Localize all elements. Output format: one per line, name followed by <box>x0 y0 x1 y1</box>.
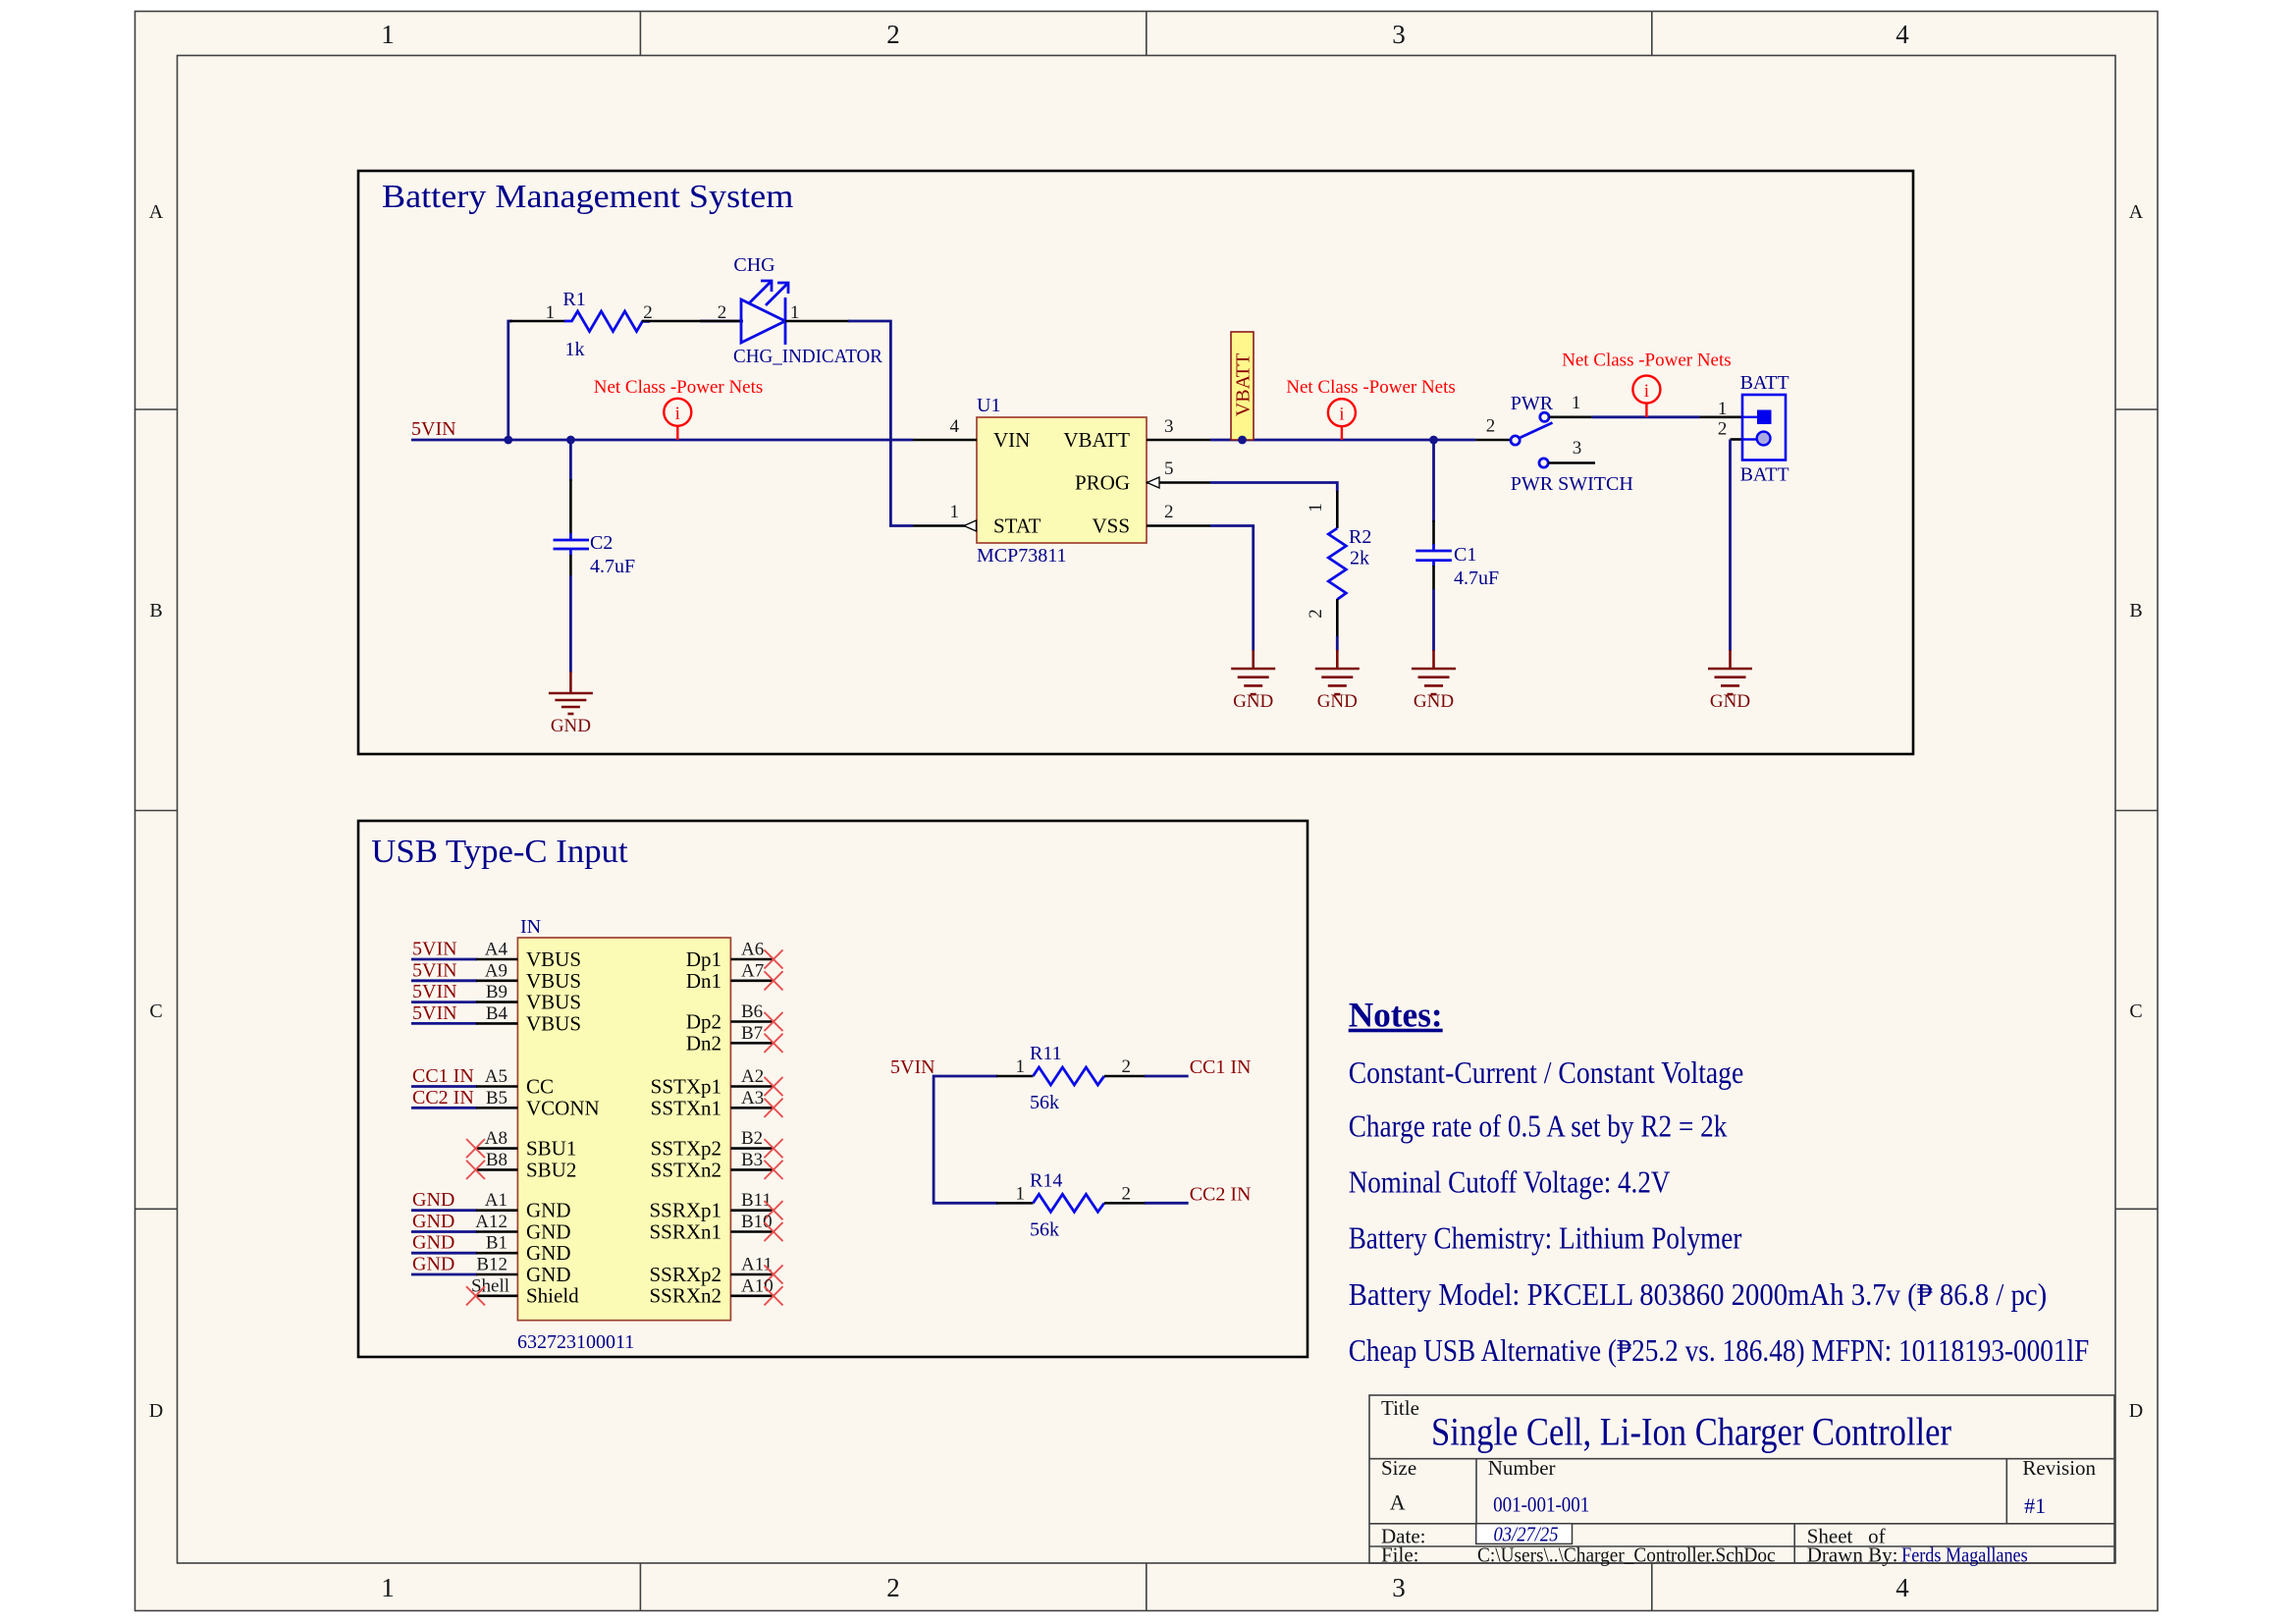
svg-text:GND: GND <box>412 1232 454 1254</box>
pin Shell no-connect X <box>466 1286 485 1305</box>
pin A6 X <box>765 949 783 968</box>
wire R11 to CC1 IN <box>1145 1075 1189 1078</box>
zone tick bottom 1|2 <box>639 1563 641 1611</box>
svg-text:R14: R14 <box>1030 1169 1062 1191</box>
pin B2 SSTXp2 <box>730 1147 774 1150</box>
svg-text:B10: B10 <box>741 1212 773 1232</box>
ground GND BATT <box>1708 650 1752 694</box>
wire 5VIN B4 <box>411 1022 477 1025</box>
svg-text:GND: GND <box>412 1211 454 1232</box>
capacitor C1 pin2 <box>1432 566 1435 590</box>
wire 5VIN to R11 R14 <box>934 1076 997 1203</box>
junction dot C1 <box>1429 436 1438 445</box>
wire 5VIN B9 <box>411 1001 477 1003</box>
TITLEBLOCK <box>1369 1395 2114 1567</box>
capacitor C1 plates <box>1415 544 1452 567</box>
pin B6 X <box>765 1012 783 1031</box>
pin A11 SSRXp2 <box>730 1273 774 1276</box>
wire GND B1 <box>411 1252 477 1255</box>
pin A10 SSRXn2 <box>730 1295 774 1298</box>
svg-text:5VIN: 5VIN <box>890 1056 935 1078</box>
svg-text:CC2 IN: CC2 IN <box>412 1087 474 1109</box>
svg-text:Battery Chemistry: Lithium Pol: Battery Chemistry: Lithium Polymer <box>1349 1220 1742 1256</box>
svg-text:001-001-001: 001-001-001 <box>1493 1491 1589 1516</box>
svg-text:Title: Title <box>1381 1396 1419 1420</box>
svg-text:Dn2: Dn2 <box>686 1031 721 1055</box>
U1 pin2 VSS line <box>1147 524 1210 527</box>
ground GND VSS <box>1231 650 1275 694</box>
svg-text:2: 2 <box>886 20 900 49</box>
zone tick right A|B <box>2115 408 2158 410</box>
pin A11 X <box>765 1265 783 1283</box>
svg-text:SSRXp1: SSRXp1 <box>649 1199 721 1222</box>
svg-text:SSTXp2: SSTXp2 <box>651 1137 721 1161</box>
pin B1 <box>476 1252 517 1255</box>
LED pin1 <box>785 320 850 323</box>
svg-text:CHG: CHG <box>733 254 774 276</box>
U1 pin5 PROG line <box>1147 481 1210 484</box>
svg-text:GND: GND <box>1317 691 1358 712</box>
svg-text:B4: B4 <box>486 1003 508 1024</box>
U1 pin1 arrow <box>964 520 977 531</box>
zone tick top 3|4 <box>1651 12 1653 56</box>
pin Shell <box>476 1295 517 1298</box>
pin A3 X <box>765 1099 783 1117</box>
zone tick left A|B <box>135 408 178 410</box>
pin B12 <box>476 1273 517 1276</box>
svg-text:Shield: Shield <box>526 1284 579 1308</box>
svg-text:56k: 56k <box>1030 1092 1059 1113</box>
svg-text:SSTXn1: SSTXn1 <box>651 1096 721 1119</box>
svg-text:4: 4 <box>1896 1573 1909 1602</box>
svg-text:Revision: Revision <box>2022 1456 2096 1480</box>
svg-text:CC1 IN: CC1 IN <box>412 1065 474 1087</box>
ground GND R2 <box>1315 650 1360 694</box>
pin A5 <box>476 1085 517 1088</box>
svg-text:5VIN: 5VIN <box>412 1002 457 1024</box>
svg-text:C2: C2 <box>590 532 613 554</box>
svg-text:i: i <box>675 404 680 424</box>
svg-text:B3: B3 <box>741 1150 763 1170</box>
wire C1 to GND <box>1432 589 1435 651</box>
svg-text:2: 2 <box>643 302 653 323</box>
svg-text:A10: A10 <box>741 1275 774 1296</box>
resistor R1 pin1 <box>509 320 565 323</box>
net class directive 2 <box>1286 377 1456 440</box>
svg-text:IN: IN <box>520 916 541 938</box>
svg-text:Charge rate of 0.5 A set by R2: Charge rate of 0.5 A set by R2 = 2k <box>1349 1109 1728 1144</box>
wire PROG net <box>1210 483 1337 493</box>
svg-text:VCONN: VCONN <box>526 1096 600 1119</box>
svg-text:A4: A4 <box>485 940 508 960</box>
svg-text:File:: File: <box>1381 1543 1419 1567</box>
svg-text:4.7uF: 4.7uF <box>1454 568 1499 589</box>
junction dot B <box>566 436 575 445</box>
svg-text:Dp1: Dp1 <box>686 947 721 971</box>
svg-text:3: 3 <box>1392 1573 1406 1602</box>
svg-text:B2: B2 <box>741 1128 763 1149</box>
connector BATT pin2 lead <box>1731 438 1743 441</box>
svg-text:Battery Model: PKCELL 803860 2: Battery Model: PKCELL 803860 2000mAh 3.7… <box>1349 1276 2048 1312</box>
svg-text:5: 5 <box>1164 459 1174 479</box>
svg-text:5VIN: 5VIN <box>412 939 457 960</box>
LED CHG_INDICATOR pin2 <box>700 320 741 323</box>
svg-text:SBU1: SBU1 <box>526 1137 576 1161</box>
pin A4 <box>476 958 517 961</box>
svg-text:U1: U1 <box>977 395 1000 416</box>
svg-text:1: 1 <box>950 502 960 522</box>
resistor R2 pin1 <box>1336 491 1339 528</box>
resistor R2 pin2 <box>1336 599 1339 637</box>
svg-text:4: 4 <box>950 416 960 437</box>
svg-text:1k: 1k <box>565 339 585 360</box>
svg-text:GND: GND <box>526 1220 571 1244</box>
pin A6 Dp1 <box>730 958 774 961</box>
svg-text:VSS: VSS <box>1092 514 1130 538</box>
svg-text:R1: R1 <box>562 289 585 310</box>
svg-text:2: 2 <box>1122 1183 1132 1204</box>
svg-text:C1: C1 <box>1454 544 1476 566</box>
pin B11 SSRXp1 <box>730 1209 774 1212</box>
U1 pin3 VBATT line <box>1147 439 1210 442</box>
svg-text:Dn1: Dn1 <box>686 969 721 993</box>
pin B5 <box>476 1107 517 1109</box>
LED triangle <box>741 299 785 343</box>
pin B3 X <box>765 1161 783 1179</box>
resistor R2 body <box>1328 528 1346 600</box>
svg-text:1: 1 <box>381 1573 395 1602</box>
capacitor C2 pin1 <box>569 479 572 534</box>
svg-text:D: D <box>2129 1400 2143 1422</box>
svg-text:Size: Size <box>1381 1456 1416 1480</box>
svg-text:Ferds Magallanes: Ferds Magallanes <box>1901 1543 2028 1567</box>
junction dot VBATT <box>1238 436 1247 445</box>
svg-text:VIN: VIN <box>993 428 1030 452</box>
svg-text:SSTXn2: SSTXn2 <box>651 1158 721 1181</box>
svg-text:R11: R11 <box>1030 1043 1062 1064</box>
wire switch to BATT <box>1592 415 1700 418</box>
resistor R14 body <box>1033 1194 1104 1212</box>
zone tick top 2|3 <box>1146 12 1148 56</box>
switch pin3 lead <box>1548 461 1595 464</box>
svg-text:i: i <box>1339 404 1344 424</box>
resistor R1 pin2 <box>642 320 700 323</box>
zone tick bottom 2|3 <box>1146 1563 1148 1611</box>
date field box <box>1476 1524 1573 1544</box>
wire BATT pin2 to GND <box>1729 440 1732 652</box>
svg-text:C: C <box>2129 1001 2142 1022</box>
resistor R1 body <box>564 311 650 332</box>
connector IN body 632723100011 <box>517 938 730 1321</box>
capacitor C2 stem top <box>569 440 572 481</box>
pin A8 <box>476 1147 517 1150</box>
pin B6 Dp2 <box>730 1020 774 1023</box>
svg-text:SSTXp1: SSTXp1 <box>651 1075 721 1099</box>
connector BATT pin1 lead <box>1699 415 1742 418</box>
pin B10 X <box>765 1222 783 1241</box>
svg-text:A: A <box>149 201 164 223</box>
pin B8 <box>476 1168 517 1171</box>
U1 pin5 arrow <box>1148 477 1160 488</box>
zone tick top 1|2 <box>639 12 641 56</box>
svg-text:A: A <box>2129 201 2144 223</box>
zone tick right B|C <box>2115 810 2158 812</box>
pin A7 Dn1 <box>730 979 774 982</box>
svg-text:A3: A3 <box>741 1088 764 1109</box>
pin B10 SSRXn1 <box>730 1230 774 1233</box>
svg-text:1: 1 <box>1572 393 1581 413</box>
title block frame <box>1369 1395 2114 1563</box>
capacitor C2 plates <box>554 533 590 556</box>
wire C1 stem <box>1432 440 1435 522</box>
ground GND C1 <box>1412 650 1456 694</box>
svg-text:A2: A2 <box>741 1066 764 1087</box>
svg-text:B1: B1 <box>486 1233 507 1254</box>
pin A2 X <box>765 1077 783 1096</box>
zone tick left C|D <box>135 1208 178 1210</box>
svg-text:USB Type-C Input: USB Type-C Input <box>371 834 628 870</box>
svg-text:VBUS: VBUS <box>526 947 581 971</box>
svg-text:2k: 2k <box>1350 548 1369 569</box>
resistor R11 pin2 <box>1104 1075 1147 1078</box>
svg-text:SSRXn1: SSRXn1 <box>649 1220 721 1244</box>
svg-text:3: 3 <box>1164 416 1174 437</box>
zone tick bottom 3|4 <box>1651 1563 1653 1611</box>
svg-text:B11: B11 <box>741 1190 772 1211</box>
wire CC1 IN <box>411 1085 477 1088</box>
section box USB Type-C Input <box>358 821 1308 1357</box>
svg-text:B5: B5 <box>486 1088 507 1109</box>
svg-text:VBUS: VBUS <box>526 969 581 993</box>
svg-text:R2: R2 <box>1349 526 1371 548</box>
svg-text:CHG_INDICATOR: CHG_INDICATOR <box>733 346 883 367</box>
svg-text:1: 1 <box>1016 1056 1026 1077</box>
svg-text:Net Class -Power Nets: Net Class -Power Nets <box>1286 377 1456 398</box>
svg-text:2: 2 <box>718 302 727 323</box>
wire R14 to CC2 IN <box>1145 1202 1189 1205</box>
svg-text:PROG: PROG <box>1075 471 1130 495</box>
svg-text:2: 2 <box>886 1573 900 1602</box>
svg-text:Single Cell, Li-Ion Charger Co: Single Cell, Li-Ion Charger Controller <box>1431 1409 1951 1453</box>
resistor R14 pin1 <box>996 1202 1033 1205</box>
svg-text:GND: GND <box>1710 691 1750 712</box>
svg-text:SBU2: SBU2 <box>526 1158 576 1181</box>
svg-text:A9: A9 <box>485 960 507 981</box>
resistor R11 pin1 <box>996 1075 1033 1078</box>
svg-text:Cheap USB Alternative (₱25.2 v: Cheap USB Alternative (₱25.2 vs. 186.48)… <box>1349 1332 2090 1368</box>
svg-text:Drawn By:: Drawn By: <box>1807 1543 1898 1567</box>
svg-text:A8: A8 <box>485 1128 507 1149</box>
wire CC2 IN <box>411 1107 477 1109</box>
svg-text:#1: #1 <box>2024 1493 2046 1518</box>
zone tick right C|D <box>2115 1208 2158 1210</box>
svg-text:A1: A1 <box>485 1190 507 1211</box>
svg-text:B9: B9 <box>486 982 507 1002</box>
svg-text:PWR: PWR <box>1511 393 1554 414</box>
svg-text:56k: 56k <box>1030 1218 1059 1240</box>
pin B11 X <box>765 1201 783 1219</box>
svg-text:A6: A6 <box>741 940 764 960</box>
svg-text:VBATT: VBATT <box>1233 353 1255 416</box>
ground GND C2 <box>549 672 593 714</box>
wire VSS to GND <box>1210 526 1254 652</box>
pin B2 X <box>765 1139 783 1158</box>
capacitor C2 pin2 <box>569 555 572 576</box>
svg-text:CC1 IN: CC1 IN <box>1190 1056 1252 1078</box>
svg-text:3: 3 <box>1573 438 1582 459</box>
switch PWR pin2 lead <box>1475 439 1511 442</box>
wire GND B12 <box>411 1273 477 1276</box>
svg-text:PWR SWITCH: PWR SWITCH <box>1511 473 1633 495</box>
LED cathode bar <box>784 298 787 345</box>
resistor R11 body <box>1033 1067 1104 1085</box>
svg-text:5VIN: 5VIN <box>412 981 457 1002</box>
pin B7 Dn2 <box>730 1042 774 1045</box>
pin A9 <box>476 979 517 982</box>
wire 5VIN A9 <box>411 979 477 982</box>
junction dot A <box>504 436 512 445</box>
wire GND A1 <box>411 1209 477 1212</box>
connector BATT body <box>1742 395 1786 460</box>
svg-text:GND: GND <box>551 716 591 736</box>
svg-text:1: 1 <box>381 20 395 49</box>
svg-text:Net Class -Power Nets: Net Class -Power Nets <box>594 377 764 398</box>
pin A7 X <box>765 971 783 990</box>
pin B4 <box>476 1022 517 1025</box>
svg-text:1: 1 <box>546 302 556 323</box>
pin A12 <box>476 1230 517 1233</box>
pin B3 SSTXn2 <box>730 1168 774 1171</box>
svg-text:C: C <box>149 1001 162 1022</box>
BMSBOX <box>358 171 1913 754</box>
capacitor C1 pin1 <box>1432 520 1435 545</box>
svg-text:2: 2 <box>1122 1056 1132 1077</box>
pin A10 X <box>765 1286 783 1305</box>
svg-text:GND: GND <box>1414 691 1454 712</box>
svg-text:i: i <box>1644 381 1649 402</box>
wire R1 to LED <box>700 320 743 323</box>
svg-text:5VIN: 5VIN <box>411 418 456 440</box>
svg-text:C:\Users\..\Charger_Controller: C:\Users\..\Charger_Controller.SchDoc <box>1477 1543 1776 1567</box>
svg-text:B8: B8 <box>486 1150 507 1170</box>
USBBOX <box>358 821 1308 1357</box>
pin B9 <box>476 1001 517 1003</box>
zone tick left B|C <box>135 810 178 812</box>
wire VBATT bus <box>1210 439 1475 442</box>
svg-text:B: B <box>2129 600 2142 622</box>
resistor R14 pin2 <box>1104 1202 1147 1205</box>
section box Battery Management System <box>358 171 1913 754</box>
svg-text:2: 2 <box>1306 609 1326 619</box>
svg-text:VBATT: VBATT <box>1063 428 1130 452</box>
svg-text:4: 4 <box>1896 20 1909 49</box>
svg-text:CC: CC <box>526 1075 554 1099</box>
svg-text:SSRXp2: SSRXp2 <box>649 1263 721 1286</box>
svg-text:CC2 IN: CC2 IN <box>1190 1183 1252 1205</box>
LED arrow 1 <box>749 281 772 303</box>
pin A3 SSTXn1 <box>730 1107 774 1109</box>
svg-text:STAT: STAT <box>993 514 1041 538</box>
pin A2 SSTXp1 <box>730 1085 774 1088</box>
svg-text:Notes:: Notes: <box>1349 996 1443 1035</box>
wire R2 to GND <box>1336 636 1339 651</box>
svg-text:BATT: BATT <box>1740 464 1789 486</box>
svg-text:1: 1 <box>1016 1183 1026 1204</box>
svg-text:A11: A11 <box>741 1255 773 1275</box>
wire R1 riser <box>508 321 512 440</box>
svg-text:B: B <box>149 600 162 622</box>
svg-text:Net Class -Power Nets: Net Class -Power Nets <box>1562 351 1732 371</box>
svg-text:3: 3 <box>1392 20 1406 49</box>
svg-text:Nominal Cutoff Voltage: 4.2V: Nominal Cutoff Voltage: 4.2V <box>1349 1164 1671 1200</box>
svg-text:GND: GND <box>412 1254 454 1275</box>
svg-text:B7: B7 <box>741 1023 763 1044</box>
wire C2 to GND <box>569 575 572 673</box>
switch pin1 lead <box>1549 415 1592 418</box>
wire 5VIN bus left <box>411 439 913 442</box>
svg-text:VBUS: VBUS <box>526 991 581 1014</box>
svg-text:B12: B12 <box>476 1255 507 1275</box>
svg-text:2: 2 <box>1164 502 1174 522</box>
net class directive 1 <box>594 377 764 440</box>
svg-text:2: 2 <box>1718 419 1728 440</box>
power port VBATT <box>1231 332 1255 440</box>
svg-text:GND: GND <box>1233 691 1273 712</box>
wire 5VIN A4 <box>411 958 477 961</box>
pin A1 <box>476 1209 517 1212</box>
LED arrow 2 <box>766 283 788 305</box>
pin B8 no-connect X <box>466 1161 485 1179</box>
pin A8 no-connect X <box>466 1139 485 1158</box>
svg-text:Constant-Current / Constant V: Constant-Current / Constant Voltage <box>1349 1055 1744 1090</box>
op-amp U1 body MCP73811 <box>977 417 1147 543</box>
svg-text:5VIN: 5VIN <box>412 959 457 981</box>
svg-text:1: 1 <box>1718 399 1728 419</box>
U1 pin1 STAT line <box>913 524 977 527</box>
svg-text:BATT: BATT <box>1740 372 1789 394</box>
net class directive 3 <box>1562 351 1732 417</box>
svg-text:632723100011: 632723100011 <box>517 1331 634 1353</box>
svg-text:Dp2: Dp2 <box>686 1010 721 1034</box>
switch PWR symbol <box>1511 412 1553 467</box>
pin B7 X <box>765 1034 783 1053</box>
svg-text:D: D <box>149 1400 163 1422</box>
svg-text:2: 2 <box>1486 416 1496 437</box>
wire LED to STAT <box>848 321 913 526</box>
svg-text:Number: Number <box>1488 1456 1556 1480</box>
svg-text:VBUS: VBUS <box>526 1011 581 1035</box>
svg-text:SSRXn2: SSRXn2 <box>649 1284 721 1308</box>
svg-text:A: A <box>1390 1490 1406 1515</box>
svg-text:B6: B6 <box>741 1001 763 1022</box>
svg-text:1: 1 <box>790 302 800 323</box>
svg-text:A5: A5 <box>485 1066 507 1087</box>
svg-text:4.7uF: 4.7uF <box>590 556 635 577</box>
svg-text:GND: GND <box>526 1199 571 1222</box>
svg-text:GND: GND <box>412 1189 454 1211</box>
svg-text:A12: A12 <box>475 1212 507 1232</box>
svg-text:Battery Management System: Battery Management System <box>382 179 793 215</box>
svg-text:GND: GND <box>526 1241 571 1265</box>
svg-text:1: 1 <box>1306 503 1326 513</box>
svg-text:A7: A7 <box>741 960 764 981</box>
svg-text:MCP73811: MCP73811 <box>977 545 1067 567</box>
wire GND A12 <box>411 1230 477 1233</box>
U1 pin4 VIN line <box>913 439 977 442</box>
NOTES <box>1349 996 2090 1368</box>
svg-text:GND: GND <box>526 1263 571 1286</box>
